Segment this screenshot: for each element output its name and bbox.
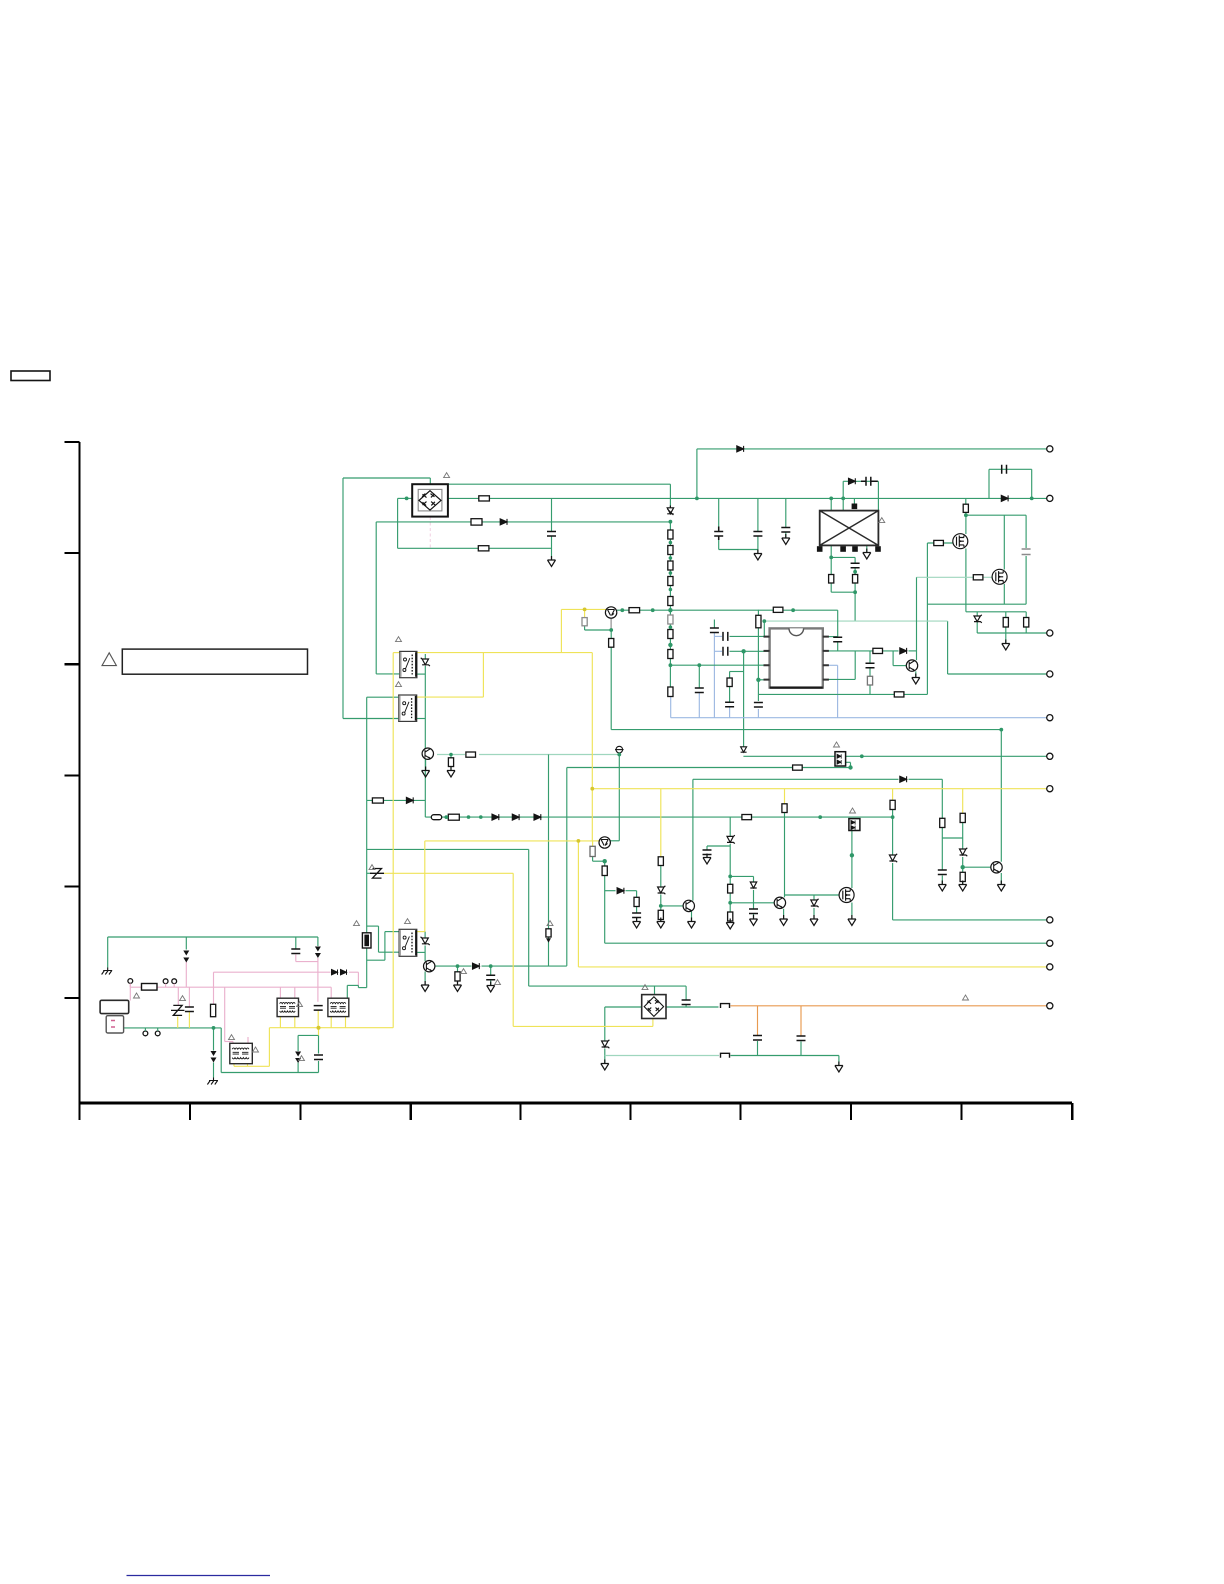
warn tri 11 [180, 996, 186, 1001]
wire opto led res h [567, 767, 793, 769]
warn tri 7 [642, 985, 648, 990]
T801 bottom pin square 1 [817, 546, 823, 552]
wire pink junction h [358, 987, 366, 989]
node chain d4 [669, 588, 673, 592]
wire mosfet feed resistor v [965, 498, 967, 504]
wire pin7 rc v c [869, 685, 871, 694]
wire ic pin6 blue h [823, 664, 838, 666]
yellow qg res drop v [784, 789, 786, 804]
wire yc cap v [295, 937, 297, 949]
AC inlet upper box [100, 1000, 129, 1013]
node chain2 a [444, 815, 448, 819]
wire rd2 drop a [1025, 612, 1027, 618]
diode D ovp [900, 776, 907, 782]
resistor R ovp2 [960, 813, 965, 822]
resistor R qh bot [658, 910, 663, 919]
wire gate bus v [926, 543, 928, 694]
fusible resistor fill [364, 935, 369, 947]
wire qb emit res stub [592, 857, 594, 862]
diode D snub [849, 478, 856, 484]
wire arrester1 v top [185, 937, 187, 950]
IC801 notch [789, 628, 804, 635]
yellow qb res stub [592, 841, 594, 847]
wire qg cap branch v b [706, 855, 708, 858]
wire half cap v [685, 986, 687, 999]
node vref a [620, 608, 624, 612]
resistor R qh top [658, 857, 663, 866]
wire chain bottom blue stub [670, 697, 672, 718]
left ruler tick 5 [65, 886, 80, 888]
terminal circle t9 [1047, 940, 1053, 946]
wire b+ sense rail h [611, 729, 1001, 731]
warn tri 19 [547, 921, 553, 926]
zener ZD ovp [960, 848, 968, 856]
bottom axis tick e [629, 1103, 631, 1120]
capacitor C18 [753, 1036, 762, 1041]
node xfmr drop b [841, 497, 845, 501]
bridge rectifier D801 outer box [412, 484, 448, 516]
capacitor C4 [547, 532, 556, 537]
filter transformer TB box [328, 998, 349, 1016]
wire sec rc left lower [830, 583, 832, 592]
wire earth drop v b [213, 1063, 215, 1078]
yellow tc bottom h [234, 1065, 269, 1067]
wire zd drop b [976, 622, 978, 633]
warn tri 14 [299, 1056, 305, 1061]
ground g16 [657, 918, 665, 929]
zener ZD aux [602, 1040, 610, 1048]
yellow loop bottom h [417, 696, 484, 698]
left ruler tick 3 [65, 663, 80, 665]
resistor R qa gray [582, 618, 587, 626]
capacitor C2 [753, 532, 762, 537]
wire q3 coll v [916, 577, 918, 660]
node yellow vx [577, 839, 581, 843]
wire ac top rail h [108, 936, 318, 938]
wire q3 base h [893, 665, 906, 667]
warn tri 16 [405, 919, 411, 924]
wire sense drop v [566, 768, 568, 966]
diode D pin7 [900, 648, 907, 654]
pink inlet riser v [129, 984, 131, 1001]
yellow qb base h [592, 840, 599, 842]
wire sec node h [831, 556, 855, 558]
wire qg chain v c [729, 921, 731, 923]
wire q3 diode left v [892, 651, 894, 666]
wire coil stub h [367, 872, 372, 874]
bottom axis tick c [410, 1103, 412, 1120]
wire relay1 zener v [424, 654, 426, 659]
wire qf emit v [424, 972, 426, 985]
resistor R q2gate [973, 575, 983, 580]
yellow tc br stub [247, 1064, 249, 1066]
wire bridge2 right h [666, 1006, 719, 1008]
node sec a [829, 556, 833, 560]
wire qg zener lower v [729, 844, 731, 876]
wire ic vcc cap blue stub [757, 709, 759, 718]
wire zr drop v [965, 604, 967, 612]
zener ZD relay3 [421, 937, 430, 945]
wire rd1 drop b [1005, 627, 1007, 633]
terminal circle t11 [1047, 1003, 1053, 1009]
yellow tb bl stub [330, 1017, 332, 1028]
wire qb chain v a [604, 861, 606, 866]
wire qg emit v [783, 909, 785, 919]
pink tb riser 1 [330, 987, 332, 998]
left ruler tick 1 [65, 441, 80, 443]
transistor Q-c [906, 660, 917, 671]
left ruler line [79, 442, 81, 1120]
yellow z2 stub [177, 1017, 179, 1028]
warn tri 10 [134, 993, 140, 998]
ground g13 [810, 915, 818, 926]
wire ry3 top link h [367, 925, 379, 927]
wire opto supply v [1000, 730, 1002, 862]
resistor R ch1 [668, 530, 673, 539]
wire ovp right v [941, 779, 943, 818]
bottom axis tick f [739, 1103, 741, 1120]
wire ac gnd v [107, 937, 109, 968]
wire relay1 right pin h [417, 673, 425, 675]
capacitor C16 [938, 870, 947, 875]
wire ovp cap v b [941, 876, 943, 885]
wire plus node v [618, 753, 620, 841]
wire qa emit res join h [585, 629, 612, 631]
chassis ground cg1 [102, 968, 113, 975]
resistor R qb base gray [590, 846, 595, 856]
fuse jumper F2 orange rail [721, 1004, 730, 1008]
wire ic pin7 h [823, 650, 899, 652]
wire tb feed v [346, 985, 348, 998]
wire top feed to bridge [343, 477, 430, 479]
ground g19 [959, 881, 967, 892]
wire sec rc left [830, 557, 832, 574]
crossed circle test point [615, 746, 624, 753]
wire qg cap branch h [707, 845, 730, 847]
wire comp cap v blue [713, 633, 715, 718]
yellow bridge2 bottom h [513, 1025, 653, 1027]
ground g4 [863, 549, 871, 560]
note text box [122, 649, 307, 674]
wire ovp zen v b [962, 857, 964, 873]
wire pin1 node riser [763, 621, 765, 636]
warn tri 15 [354, 921, 360, 926]
wire bridge top stub [429, 478, 431, 485]
transistor Q-e [422, 748, 433, 759]
yellow vx riser v [577, 841, 579, 967]
wire relay2 left top h [367, 696, 399, 698]
resistor R qe [448, 758, 453, 767]
yellow tb br stub [345, 1017, 347, 1028]
node chain junction [668, 608, 672, 612]
wire arr3 branch h [298, 1034, 318, 1036]
resistor R ocp [894, 692, 904, 697]
node main rail a [695, 497, 699, 501]
arrester A4 [295, 1052, 301, 1064]
wire bridge2 zen gnd v [604, 1049, 606, 1064]
diode D uvp [617, 888, 624, 894]
wire bridge2 left h [605, 1006, 642, 1008]
wire qb chain v b [604, 876, 606, 944]
warn tri 17 [461, 969, 467, 974]
node photo [617, 753, 621, 757]
capacitor C17 [682, 1000, 691, 1005]
wire mosfet rail h [966, 514, 1026, 516]
capacitor C14 [632, 913, 641, 918]
resistor R ch9 [668, 687, 673, 697]
yellow coil drop v [512, 873, 514, 1026]
warn tri 6 [850, 808, 856, 813]
node chain pin3 [669, 663, 673, 667]
wire pin7 rc v b [869, 668, 871, 676]
node chain2 e [891, 815, 895, 819]
resistor R rd1 [1003, 618, 1008, 628]
wire fb branch blue stub [729, 708, 731, 718]
wire chain2 h [425, 816, 892, 818]
wire chain2 down v [892, 817, 894, 854]
wire bridge2 feed h [529, 985, 686, 987]
wire chain2 down v b [892, 863, 894, 920]
wire uvp rc v b [636, 907, 638, 913]
pink xcap2 riser v [188, 987, 190, 1006]
wire ovp rail h b [909, 778, 943, 780]
wire photo out h pale [437, 754, 465, 756]
yellow tc corner v [268, 1028, 270, 1067]
resistor R ch6 gray [668, 615, 673, 624]
wire zd drop a [976, 612, 978, 616]
wire uvp diode h b [626, 890, 637, 892]
wire qh zen v a [660, 866, 662, 887]
T801 top pin square [852, 504, 858, 510]
node earth [212, 1026, 216, 1030]
pink n riser v [213, 972, 215, 1004]
capacitor C27 series [723, 632, 728, 641]
wire fb divider v [743, 651, 745, 746]
wire cap drop 3 lower [785, 533, 787, 539]
wire qg chain v b [729, 893, 731, 912]
wire fusible lower v [366, 947, 368, 988]
pin circle ac4 [143, 1028, 148, 1036]
wire fb branch h [730, 671, 744, 673]
node qa emit [609, 628, 613, 632]
wire pin3 h [670, 664, 769, 666]
pink ta riser 1 [279, 987, 281, 998]
node ic top [762, 619, 766, 623]
wire qi gate zen v b [813, 908, 815, 919]
wire comp cap top stub [713, 620, 715, 628]
wire reg out h [977, 632, 1049, 634]
wire vcc out h [948, 673, 1050, 675]
pink arrester2 v bottom [317, 958, 319, 1002]
yellow relay3 drop v [424, 841, 426, 932]
bottom axis line [80, 1102, 1073, 1105]
wire bridge neg rail h [398, 547, 552, 549]
wire sec rc right [854, 557, 856, 563]
resistor R ch8 [668, 650, 673, 659]
pink neutral rail h [130, 986, 331, 988]
warn tri 9 [297, 1002, 303, 1007]
pink ta riser 2 [294, 987, 296, 998]
node yellow xcap [317, 1026, 321, 1030]
yellow main drop v [392, 653, 394, 1028]
arrester A3 [211, 1051, 217, 1063]
wire fb branch v a [729, 672, 731, 679]
wire ry3 swtop h [385, 931, 399, 933]
wire ocap1 lower [757, 1041, 759, 1056]
wire bridge2 left v [604, 1007, 606, 1041]
wire fusible chain v [366, 800, 368, 934]
node chain d5 [669, 625, 673, 629]
wire zener chain top [669, 484, 671, 507]
blue ground bus [671, 717, 1050, 719]
wire q2 source v [1003, 584, 1005, 604]
yellow ta br stub [294, 1017, 296, 1028]
node opto led [848, 765, 852, 769]
wire fuse rail h [376, 521, 670, 523]
wire pin5 riser v [854, 651, 856, 680]
wire pin3 cap v [698, 665, 700, 687]
pink tc corner v [224, 987, 226, 1041]
wire relay2 left bot h [343, 718, 399, 720]
wire tb feed h [347, 984, 358, 986]
wire xfmr gnd stub [866, 545, 868, 552]
ground g9 [703, 854, 711, 865]
pin circle ac1 [128, 979, 133, 988]
resistor R qb emit [602, 866, 607, 876]
capacitor C23 ycap [291, 949, 300, 954]
wire relay chain v [424, 666, 426, 817]
node qi drain [850, 853, 854, 857]
zener ZD relay1 [421, 658, 430, 666]
wire ic vcc cap v [757, 694, 759, 701]
wire qg cap branch v [706, 846, 708, 850]
orange out rail h [731, 1005, 1050, 1007]
wire cap drop 1 [718, 498, 720, 531]
zener ZD reg [974, 615, 982, 623]
diode D fuserail [500, 519, 507, 525]
ground g23 [454, 981, 462, 992]
ground g7 [422, 767, 430, 778]
resistor R mainrail [479, 496, 490, 501]
diode D mainrail [1001, 495, 1008, 501]
resistor R sec2 [853, 575, 858, 584]
wire xfmr snubber drop [842, 481, 844, 511]
diode D qgb [750, 882, 756, 888]
wire bridge2 top stub [654, 986, 656, 995]
wire qg zen v b [753, 890, 755, 909]
mosfet Q803 [839, 888, 854, 903]
resistor R sec1 [829, 575, 834, 584]
ground g22 [835, 1062, 843, 1073]
wire 24v rail h [893, 919, 1050, 921]
capacitor C10 [725, 702, 734, 707]
wire yc cap lower pink [295, 955, 297, 962]
IC801 box [770, 628, 823, 687]
wire qd base res v [962, 882, 964, 885]
IC801 pin stubs left [764, 637, 770, 680]
wire xcap3 v a [318, 1035, 320, 1053]
wire qe res v [450, 755, 452, 759]
wire q2 gate h pale [917, 576, 993, 578]
left ruler tick 4 [65, 774, 80, 776]
wire xfmr top-left drop [830, 498, 832, 511]
resistor R icvcc [756, 615, 761, 628]
wire sec rc mid [854, 568, 856, 575]
wire qf coll v [424, 946, 426, 962]
wire v left feed [342, 478, 344, 719]
wire qg zen v c [753, 914, 755, 919]
yellow vx out h [578, 966, 1049, 968]
wire relay2 left top v [366, 697, 368, 800]
transistor Q-a [605, 607, 616, 618]
yellow bridge2 bottom v [652, 1019, 654, 1027]
wire pin7 rc v a [869, 651, 871, 663]
wire cap drop 1 lower [718, 537, 720, 550]
wire qf res gnd v [457, 981, 459, 985]
resistor R rd2 [1024, 618, 1029, 628]
wire ovp cap v [941, 838, 943, 870]
wire qb emit res h [593, 860, 605, 862]
IC801 bottom edge [770, 686, 823, 688]
wire chain2 res v [892, 810, 894, 818]
resistor R prot [372, 798, 383, 803]
wire inlet corner v [220, 1028, 222, 1073]
wire rd2 drop b [1025, 627, 1027, 633]
yellow vref riser v [560, 609, 562, 652]
wire qe res lower v [450, 767, 452, 771]
wire prot diode h [367, 799, 426, 801]
yellow standby out h [592, 788, 1049, 790]
wire bridge left pin [398, 497, 413, 499]
resistor R negrail [478, 546, 489, 551]
wire fb cap lower [837, 643, 839, 651]
node qd base [961, 865, 965, 869]
wire uvp rc v a [636, 891, 638, 898]
yellow ta bl stub [279, 1017, 281, 1028]
resistor R ch5 [668, 597, 673, 606]
ground g20 [997, 881, 1005, 892]
ground g12 [780, 915, 788, 926]
wire qi gate zen v a [813, 895, 815, 900]
node fb [741, 649, 745, 653]
node main rail b [1030, 497, 1034, 501]
node bridge left [405, 497, 409, 501]
diode D ch3 [534, 814, 541, 820]
bridge D801 inner box [418, 489, 442, 511]
wire half cap v b [685, 1005, 687, 1008]
wire cap gnd chain mid [551, 498, 553, 531]
terminal circle t8 [1047, 917, 1053, 923]
wire relay1 left pin h [376, 673, 400, 675]
yellow down v [591, 653, 593, 841]
wire qg zen v a [753, 876, 755, 881]
bottom axis tick d [519, 1103, 521, 1120]
ground g14 [848, 915, 856, 926]
diode D acpink1 [332, 970, 338, 975]
resistor R drive [546, 929, 551, 937]
resistor R ch2 [668, 546, 673, 555]
dual diode pack D805 box [835, 752, 846, 766]
wire reg rail h [966, 611, 1026, 613]
capacitor C15 [749, 909, 758, 914]
yellow relay3 h [425, 840, 593, 842]
warn tri 2 [396, 637, 402, 642]
wire uvp rc v c [636, 918, 638, 922]
yellow coil rail h [383, 872, 513, 874]
orange cap drop 1 [757, 1006, 759, 1035]
zener ZD chain top [667, 506, 673, 516]
bridge D801 diamond [419, 491, 441, 510]
